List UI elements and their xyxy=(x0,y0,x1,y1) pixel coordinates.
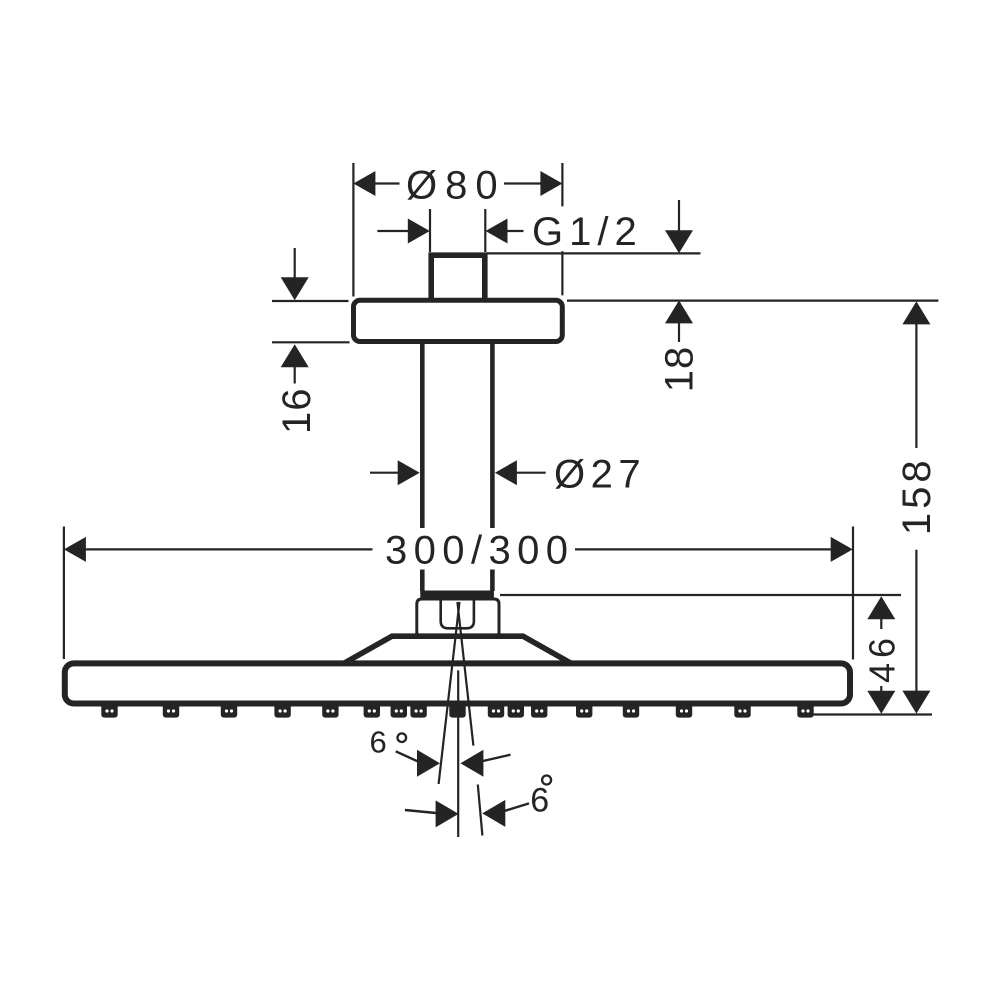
nozzle 10 xyxy=(488,703,504,718)
dimension D80 extension right xyxy=(561,163,563,295)
nozzle 5 xyxy=(322,703,338,718)
degree ring lower xyxy=(542,776,551,785)
svg-text:Ø27: Ø27 xyxy=(554,453,646,497)
degree ring upper xyxy=(398,733,407,742)
compression washer xyxy=(420,591,494,599)
nut top reference line xyxy=(500,594,901,596)
svg-text:18: 18 xyxy=(658,346,702,393)
nozzle 12 xyxy=(531,703,547,718)
G12 threaded stub xyxy=(431,255,485,301)
nozzle 8 xyxy=(410,703,426,718)
nozzle 16 xyxy=(734,703,750,718)
nozzle 7 xyxy=(391,703,407,718)
dimension 46 shaft lower xyxy=(880,686,882,693)
dimension 300300 extension left xyxy=(63,527,65,660)
nozzle 9 center xyxy=(449,703,465,718)
svg-text:Ø80: Ø80 xyxy=(406,164,506,208)
angle 6 upper arrow left xyxy=(417,750,440,777)
nozzle 6 xyxy=(364,703,380,718)
nozzle 11 xyxy=(508,703,524,718)
angle 6 lower leader left xyxy=(405,810,436,813)
nozzle 2 xyxy=(163,703,179,718)
ceiling reference line left xyxy=(272,300,349,302)
nozzle 4 xyxy=(274,703,290,718)
svg-text:46: 46 xyxy=(862,633,903,683)
dimension 16 up arrow xyxy=(281,344,309,367)
dimension 158 shaft upper xyxy=(915,324,917,448)
dimension 158 shaft lower xyxy=(915,550,917,692)
head dome trapezoid xyxy=(343,636,572,664)
supply pipe left edge xyxy=(420,343,425,591)
dimension 46 shaft upper xyxy=(880,619,882,630)
spray line left xyxy=(439,602,460,784)
svg-text:158: 158 xyxy=(895,456,939,535)
angle 6 lower arrow right xyxy=(482,800,505,827)
angle 6 lower leader right xyxy=(505,803,529,810)
nut inner pipe end xyxy=(441,599,474,628)
dimension D27 arrow right xyxy=(495,460,517,485)
dimension 158 up arrow xyxy=(902,301,930,324)
angle 6 upper leader left xyxy=(396,751,419,762)
dimension 16 down arrow shaft xyxy=(294,248,296,279)
dimension D80 arrow right xyxy=(540,171,562,196)
svg-text:6: 6 xyxy=(370,725,387,760)
nozzle 17 xyxy=(797,703,813,718)
svg-text:6: 6 xyxy=(530,782,549,820)
nozzle row xyxy=(101,703,813,718)
dimension G12 line xyxy=(377,230,523,232)
dimension 16 up arrow shaft xyxy=(294,367,296,384)
dimension 18 up arrow shaft xyxy=(678,323,680,342)
spray line right upper xyxy=(457,602,473,746)
dimension D80 arrow left xyxy=(353,171,375,196)
angle 6 lower arrow left xyxy=(436,800,459,827)
dimension 18 down arrow xyxy=(665,230,693,253)
dimension 18 up arrow xyxy=(665,300,693,323)
dimension D27 line left xyxy=(370,472,400,474)
shower head body xyxy=(65,663,850,703)
dimension 300300 extension right xyxy=(852,527,854,660)
dimension G12 arrow right xyxy=(486,219,508,244)
dimension G12 arrow left xyxy=(408,219,430,244)
nozzle 13 xyxy=(576,703,592,718)
dimension D27 line right xyxy=(517,472,546,474)
dimension D80 extension left xyxy=(352,163,354,297)
dimension 300300 line xyxy=(85,548,831,550)
nozzle 1 xyxy=(101,703,117,718)
svg-text:300/300: 300/300 xyxy=(385,529,574,573)
dimension D27 arrow left xyxy=(398,460,420,485)
dimension G12 extension right xyxy=(484,209,486,252)
dimension D80 line xyxy=(375,182,541,184)
spray face reference line xyxy=(806,713,932,715)
dimension G12 extension left xyxy=(429,209,431,252)
dimension 300300 arrow left xyxy=(64,537,86,562)
dimension 46 up arrow xyxy=(867,596,895,619)
nozzle 3 xyxy=(221,703,237,718)
dimension 18 down arrow shaft xyxy=(678,200,680,233)
supply pipe right edge xyxy=(490,343,495,591)
angle 6 upper arrow right xyxy=(460,750,483,777)
svg-text:16: 16 xyxy=(275,387,319,434)
dimension 16 down arrow xyxy=(281,277,309,300)
nozzle dots xyxy=(105,709,809,712)
dimension 158 down arrow xyxy=(902,691,930,714)
dimension 300300 arrow right xyxy=(831,537,853,562)
ceiling reference line right xyxy=(567,300,938,302)
svg-text:G1/2: G1/2 xyxy=(532,210,643,254)
angle 6 upper leader right xyxy=(483,755,511,761)
connector nut xyxy=(417,599,499,635)
nozzle 15 xyxy=(676,703,692,718)
spray line right lower xyxy=(478,785,483,836)
dimension 46 down arrow xyxy=(867,691,895,714)
ceiling flange xyxy=(354,300,563,341)
nozzle 14 xyxy=(623,703,639,718)
spray axis center line xyxy=(457,670,459,837)
stub top reference line xyxy=(487,252,701,254)
flange bottom reference line xyxy=(272,341,350,343)
